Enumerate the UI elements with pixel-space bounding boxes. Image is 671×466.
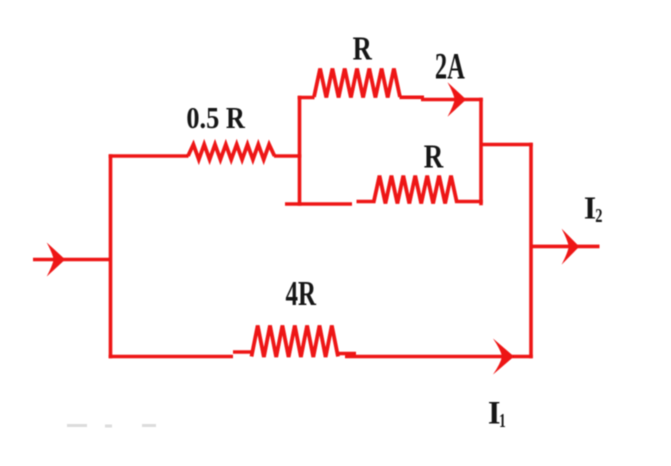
resistor R lower zigzag	[374, 176, 458, 204]
wire top branch to box corner	[421, 98, 483, 102]
resistor 0.5R zigzag	[188, 145, 275, 160]
wire top branch lead left	[298, 96, 315, 100]
arrow 2A current	[448, 82, 467, 116]
wire top branch lead right	[400, 96, 425, 100]
svg-text:2A: 2A	[435, 46, 465, 87]
wire I2 output horizontal	[531, 245, 600, 249]
svg-text:0.5 R: 0.5 R	[186, 100, 245, 135]
wire bottom branch right	[345, 355, 533, 359]
arrow I2 current	[562, 229, 580, 265]
wire parallel-box left vertical	[298, 96, 302, 206]
wire bottom branch lead right of 4R	[338, 352, 357, 356]
wire outer right vertical	[529, 143, 533, 359]
wire input horizontal	[33, 258, 111, 262]
arrow input current	[47, 243, 65, 277]
svg-text:R: R	[353, 31, 373, 68]
svg-text:4R: 4R	[286, 274, 317, 313]
svg-text:1: 1	[499, 411, 506, 432]
resistor 4R zigzag	[252, 326, 339, 358]
svg-text:R: R	[424, 139, 444, 176]
wire mid right horizontal	[481, 143, 533, 147]
arrow I1 current	[493, 339, 514, 375]
wire bottom branch left	[109, 355, 233, 359]
faint marks bottom left	[67, 424, 156, 428]
wire bottom branch lead left of 4R	[233, 350, 252, 354]
wire lower branch lead right	[457, 200, 483, 204]
wire top branch left of 0.5R	[109, 154, 189, 158]
wire lower branch lead left	[357, 200, 375, 204]
resistor R top zigzag	[314, 69, 400, 98]
wire top branch right of 0.5R	[274, 154, 301, 158]
svg-text:2: 2	[595, 206, 602, 227]
wire left vertical	[109, 154, 113, 358]
wire lower branch stub from box left	[285, 202, 352, 206]
wire parallel-box right vertical	[479, 98, 483, 206]
